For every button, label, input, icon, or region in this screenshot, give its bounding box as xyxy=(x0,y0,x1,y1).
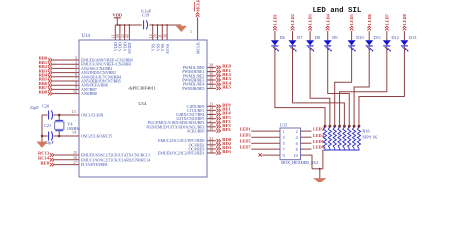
net label LED1 vertical xyxy=(273,14,278,30)
svg-text:SIP9 1K: SIP9 1K xyxy=(362,134,378,139)
junction LED5 at R16 xyxy=(333,125,336,128)
LED D10 anode wire xyxy=(351,31,353,40)
net label RF5 xyxy=(207,118,216,120)
connector U15 BOX_HEADER_5X2 xyxy=(280,128,301,160)
LED D6 xyxy=(271,40,279,45)
resistor R16 element 1 xyxy=(323,127,326,148)
capacitor C21 22pF xyxy=(48,132,50,141)
net label LED4 vertical xyxy=(325,13,330,30)
svg-text:2: 2 xyxy=(296,129,298,134)
resistor R16 element 3 xyxy=(333,127,336,148)
wire header LED7 xyxy=(251,148,280,150)
no-connect X pin 9 xyxy=(262,154,280,156)
junction LED7 at R16 xyxy=(338,125,341,128)
svg-text:D8: D8 xyxy=(315,35,320,40)
svg-text:LED1: LED1 xyxy=(273,14,278,25)
wire ground drop xyxy=(319,169,321,179)
svg-text:9: 9 xyxy=(283,153,285,158)
svg-text:17: 17 xyxy=(73,160,77,165)
junction LED2 at R16 xyxy=(343,125,346,128)
svg-text:5: 5 xyxy=(283,141,285,146)
wire pin 3 RB1 xyxy=(53,63,79,65)
wire R16 common bus xyxy=(324,149,360,151)
junction LED1 at R16 xyxy=(324,125,327,128)
wire header LED5 xyxy=(251,142,280,144)
wire LED7 cathode to R16 xyxy=(340,46,387,126)
wire LED2 cathode to R16 xyxy=(293,46,345,126)
wire LED3 cathode to R16 xyxy=(310,46,330,126)
ground symbol header xyxy=(314,178,326,183)
wire header LED6 xyxy=(301,142,312,144)
svg-text:LED4: LED4 xyxy=(325,13,330,25)
svg-text:D6: D6 xyxy=(280,35,286,40)
pin VSS 39 wire xyxy=(166,25,168,40)
LED D7 xyxy=(289,40,297,45)
svg-text:LED3: LED3 xyxy=(308,13,313,25)
svg-text:RE8: RE8 xyxy=(40,160,49,165)
pin VDD 40 wire xyxy=(128,25,130,40)
svg-text:18: 18 xyxy=(209,148,213,153)
svg-text:AVSS: AVSS xyxy=(165,43,170,54)
IC U14 dsPIC30F4011 body xyxy=(79,40,207,177)
svg-text:RD1: RD1 xyxy=(222,149,232,154)
capacitor C20 22pF xyxy=(48,111,50,120)
resistor R16 element 5 xyxy=(343,127,346,148)
svg-text:D10: D10 xyxy=(356,35,363,40)
wire pin 7 RB5 xyxy=(53,80,79,82)
net label RE5 xyxy=(207,87,216,89)
wire LED8 cathode to R16 xyxy=(359,46,404,126)
wire header LED3 xyxy=(251,136,280,138)
svg-text:D12: D12 xyxy=(391,35,398,40)
LED D8 xyxy=(306,40,314,45)
junction VDD stub xyxy=(116,24,118,26)
pin VSS 12 wire xyxy=(152,25,154,40)
svg-text:R16: R16 xyxy=(362,129,370,134)
svg-text:U14: U14 xyxy=(82,34,91,39)
net label RF2 xyxy=(207,122,216,124)
svg-text:10: 10 xyxy=(294,153,298,158)
LED D11 anode wire xyxy=(368,31,370,40)
wire pin 17 RE8 xyxy=(54,164,79,166)
svg-text:10MHz: 10MHz xyxy=(67,126,80,131)
net label RF1 xyxy=(207,109,216,111)
wire VDD rail left segment xyxy=(115,24,141,26)
pin 13 OSC1 wire xyxy=(42,114,48,116)
net label RF0 xyxy=(207,105,216,107)
svg-text:C20: C20 xyxy=(42,104,49,109)
net label RE0 xyxy=(207,66,216,68)
ground symbol top xyxy=(176,26,186,32)
LED D6 anode wire xyxy=(274,31,276,40)
svg-text:PWM3H/RE5: PWM3H/RE5 xyxy=(182,86,204,91)
LED D12 xyxy=(383,40,391,45)
svg-text:MCLR: MCLR xyxy=(195,42,200,54)
resistor R16 element 6 xyxy=(348,127,351,148)
svg-text:AN8/RB8: AN8/RB8 xyxy=(81,91,97,96)
net label RF3 xyxy=(207,126,216,128)
pin VDD 30 wire xyxy=(119,25,121,40)
svg-text:29: 29 xyxy=(209,126,213,131)
svg-text:OSC1/CLKIN: OSC1/CLKIN xyxy=(81,113,104,118)
net label RD1 xyxy=(207,152,216,154)
svg-text:LED1: LED1 xyxy=(240,127,251,132)
pin 14 OSC2 wire xyxy=(42,135,48,137)
wire pin 15 RC13 xyxy=(54,154,79,156)
wire pin 2 RB0 xyxy=(53,59,79,61)
net label RE1 xyxy=(207,71,216,73)
net label RD3 xyxy=(207,148,216,150)
svg-text:FLTA/INT0/RE8: FLTA/INT0/RE8 xyxy=(81,162,107,167)
LED D9 anode wire xyxy=(327,31,329,40)
net label LED7 vertical xyxy=(384,13,389,30)
svg-text:LED7: LED7 xyxy=(384,13,389,25)
net label MCLR vertical xyxy=(196,13,200,15)
junction LED8 at R16 xyxy=(358,125,361,128)
wire pin 8 RB6 xyxy=(53,84,79,86)
svg-text:D7: D7 xyxy=(297,35,303,40)
svg-text:LED5: LED5 xyxy=(349,13,354,25)
junction LED6 at R16 xyxy=(353,125,356,128)
LED D7 anode wire xyxy=(292,31,294,40)
net label LED8 vertical xyxy=(402,13,407,30)
net label LED2 vertical xyxy=(290,14,295,30)
svg-text:LED2: LED2 xyxy=(290,14,295,25)
svg-text:D9: D9 xyxy=(332,35,337,40)
wire LED5 cathode to R16 xyxy=(335,46,352,126)
LED D8 anode wire xyxy=(309,31,311,40)
wire pin 5 RB3 xyxy=(53,72,79,74)
wire header LED1 xyxy=(251,130,280,132)
LED D13 anode wire xyxy=(403,31,405,40)
svg-text:OSC2/CLKO/RC15: OSC2/CLKO/RC15 xyxy=(81,134,112,139)
svg-text:U15: U15 xyxy=(280,122,287,127)
wire crystal ground rail xyxy=(41,115,43,136)
svg-text:7: 7 xyxy=(283,147,285,152)
wire VSS rail right segment xyxy=(149,24,181,26)
LED D9 xyxy=(324,40,332,45)
svg-text:LED5: LED5 xyxy=(240,139,251,144)
svg-text:LED7: LED7 xyxy=(240,145,252,150)
net label RD0 xyxy=(207,140,216,142)
LED D11 xyxy=(365,40,373,45)
net label LED6 vertical xyxy=(367,13,372,30)
svg-text:dsPIC30F4011: dsPIC30F4011 xyxy=(129,86,157,91)
net label RD2 xyxy=(207,144,216,146)
wire pin 6 RB4 xyxy=(53,76,79,78)
wire header pin 10 to ground xyxy=(301,155,313,169)
resistor R16 element 4 xyxy=(338,127,341,148)
wire pin 10 RB8 xyxy=(53,93,79,95)
svg-text:1: 1 xyxy=(283,129,285,134)
capacitor C19 0.1uF xyxy=(143,20,145,29)
crystal Y4 10MHz xyxy=(58,115,60,120)
svg-text:LED8: LED8 xyxy=(313,145,324,150)
svg-text:1: 1 xyxy=(190,29,192,34)
wire header LED8 xyxy=(301,148,312,150)
wire LED1 cathode to R16 xyxy=(275,46,325,126)
net label LED5 vertical xyxy=(349,13,354,30)
wire header LED4 xyxy=(301,136,312,138)
svg-text:C19: C19 xyxy=(142,12,149,17)
svg-text:33: 33 xyxy=(209,84,213,89)
wire pin 16 RC14 xyxy=(54,159,79,161)
wire pin 9 RB7 xyxy=(53,88,79,90)
svg-text:8: 8 xyxy=(296,147,298,152)
svg-text:3: 3 xyxy=(283,135,285,140)
svg-text:RE5: RE5 xyxy=(222,85,231,90)
svg-text:C21: C21 xyxy=(44,123,51,128)
svg-text:22pF: 22pF xyxy=(30,105,39,110)
svg-text:LED8: LED8 xyxy=(402,13,407,25)
svg-text:AVDD: AVDD xyxy=(127,43,132,55)
svg-text:13: 13 xyxy=(72,109,76,114)
svg-text:MCLR: MCLR xyxy=(196,0,201,12)
pin VDD 11 wire xyxy=(114,25,116,40)
junction LED4 at R16 xyxy=(348,125,351,128)
net label RE2 xyxy=(207,75,216,77)
ground symbol crystal xyxy=(37,142,47,148)
svg-text:D13: D13 xyxy=(409,35,416,40)
net label RE3 xyxy=(207,79,216,81)
wire LED4 cathode to R16 xyxy=(328,46,350,126)
pin 1 MCLR wire xyxy=(197,17,199,40)
svg-text:LED3: LED3 xyxy=(240,133,251,138)
svg-text:LED6: LED6 xyxy=(367,13,372,25)
net label RE4 xyxy=(207,83,216,85)
svg-text:40: 40 xyxy=(125,34,130,38)
pin VSS 31 wire xyxy=(161,25,163,40)
resistor R16 element 7 xyxy=(353,127,356,148)
svg-text:LED and SIL: LED and SIL xyxy=(313,7,362,15)
pin VDD 32 wire xyxy=(124,25,126,40)
resistor R16 element 2 xyxy=(328,127,331,148)
svg-text:LED4: LED4 xyxy=(313,133,325,138)
wire pin 4 RB2 xyxy=(53,67,79,69)
svg-text:LED2: LED2 xyxy=(313,127,324,132)
svg-text:VDD: VDD xyxy=(113,12,123,17)
junction LED3 at R16 xyxy=(328,125,331,128)
svg-text:U14: U14 xyxy=(138,101,147,106)
svg-text:RF6: RF6 xyxy=(222,127,231,132)
svg-text:LED6: LED6 xyxy=(313,139,324,144)
wire ground jog xyxy=(312,168,323,170)
LED D13 xyxy=(400,40,408,45)
resistor R16 element 8 xyxy=(357,127,360,148)
svg-text:10: 10 xyxy=(73,89,77,94)
wire R16 common to ground xyxy=(322,150,324,169)
net label RF6 xyxy=(207,130,216,132)
svg-text:39: 39 xyxy=(162,34,167,38)
wire header LED2 xyxy=(301,130,312,132)
svg-text:BOX_HEADER_5X2: BOX_HEADER_5X2 xyxy=(281,160,318,165)
wire LED6 cathode to R16 xyxy=(354,46,369,126)
svg-text:6: 6 xyxy=(296,141,298,146)
svg-text:RB8: RB8 xyxy=(39,89,48,94)
LED D10 xyxy=(348,40,356,45)
svg-text:SCK1/RF6: SCK1/RF6 xyxy=(187,128,204,133)
svg-text:EMUD2/OC2/IC2/INT2/RD1: EMUD2/OC2/IC2/INT2/RD1 xyxy=(158,151,204,156)
pin VSS 20 wire xyxy=(157,25,159,40)
LED D12 anode wire xyxy=(386,31,388,40)
net label RF4 xyxy=(207,114,216,116)
svg-text:D11: D11 xyxy=(374,35,381,40)
net label LED3 vertical xyxy=(308,13,313,30)
